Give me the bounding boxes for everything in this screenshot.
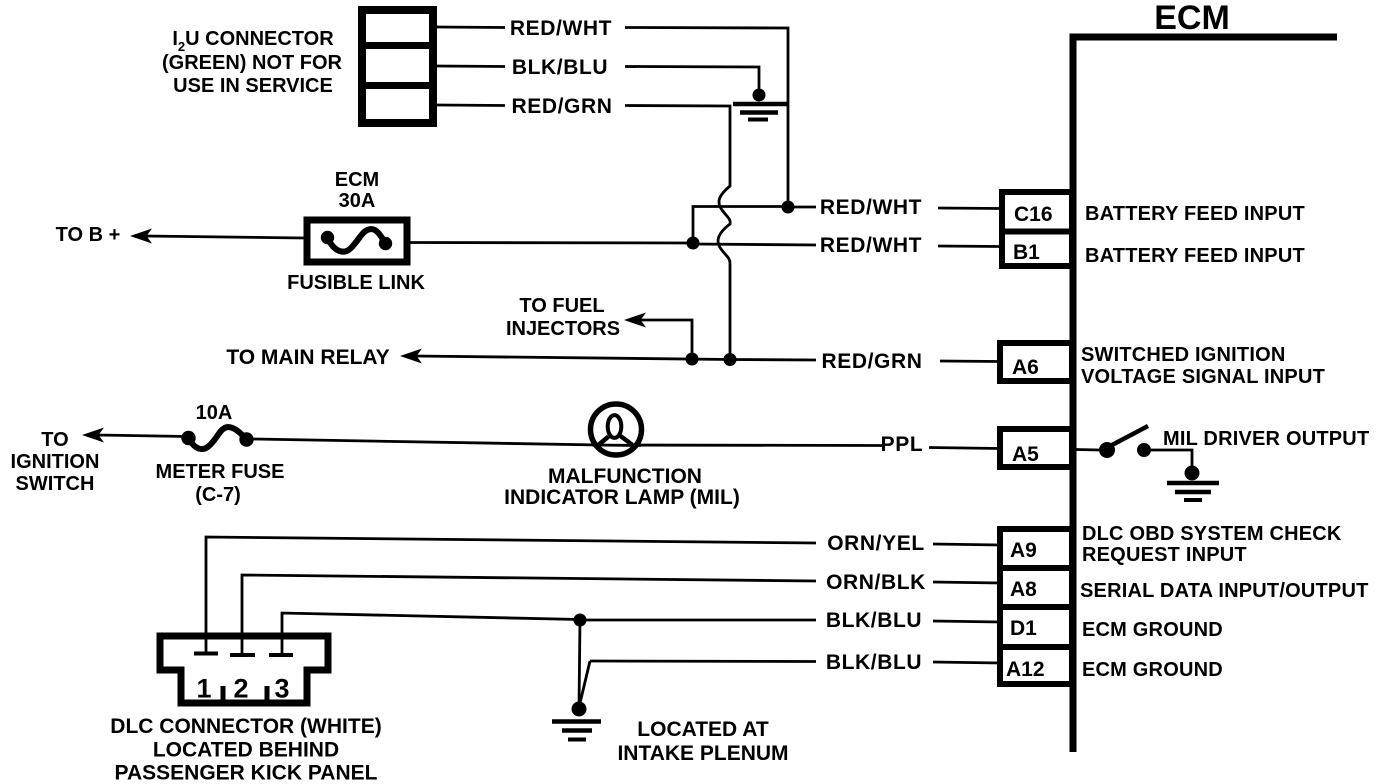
wire junction to RED/WHT label B1 row bbox=[693, 244, 816, 245]
wire ORN/YEL from DLC pin1 bbox=[206, 537, 816, 654]
svg-text:DLC OBD SYSTEM CHECK: DLC OBD SYSTEM CHECK bbox=[1082, 523, 1342, 545]
svg-text:SWITCH: SWITCH bbox=[16, 473, 95, 495]
svg-text:INJECTORS: INJECTORS bbox=[506, 318, 620, 340]
pin 3 bar DLC bbox=[269, 653, 293, 657]
wire RED/GRN from I2U pin3 bbox=[437, 104, 505, 107]
svg-text:3: 3 bbox=[274, 674, 289, 704]
wire RED/WHT to vertical drop bbox=[625, 28, 788, 204]
pin box A5 bbox=[1000, 429, 1072, 467]
wire RED/WHT from I2U pin1 bbox=[437, 26, 505, 29]
wire BLK/BLU from I2U pin2 bbox=[437, 65, 505, 68]
svg-text:DLC CONNECTOR (WHITE): DLC CONNECTOR (WHITE) bbox=[110, 715, 381, 738]
svg-text:TO FUEL: TO FUEL bbox=[519, 295, 604, 317]
arrow to fuel injectors bbox=[624, 313, 646, 328]
wire ignition to meter fuse bbox=[97, 435, 188, 437]
wire BLK/BLU into D1 bbox=[933, 621, 1000, 622]
wire A5 to switch bbox=[1076, 448, 1099, 451]
svg-text:ORN/YEL: ORN/YEL bbox=[827, 532, 925, 555]
node dot BLK/BLU ground junction bbox=[753, 89, 766, 102]
label DLC connector note bbox=[110, 715, 381, 784]
ground G2 intake plenum bbox=[552, 722, 601, 740]
node dot main relay junction bbox=[686, 353, 699, 366]
svg-text:BLK/BLU: BLK/BLU bbox=[826, 651, 922, 674]
wire PPL into A5 bbox=[929, 448, 1000, 449]
svg-text:D1: D1 bbox=[1010, 617, 1037, 640]
svg-text:METER FUSE: METER FUSE bbox=[156, 461, 285, 483]
pin box A9+A8+D1+A12 bbox=[997, 529, 1072, 684]
wire BLK/BLU A12 row from ground slant bbox=[590, 660, 816, 663]
node dot RED/GRN junction bbox=[724, 353, 737, 366]
fuse F2 meter fuse element bbox=[181, 427, 253, 449]
svg-text:B1: B1 bbox=[1013, 241, 1040, 264]
svg-text:SERIAL DATA INPUT/OUTPUT: SERIAL DATA INPUT/OUTPUT bbox=[1080, 580, 1369, 602]
svg-text:IGNITION: IGNITION bbox=[11, 451, 100, 473]
svg-text:LOCATED BEHIND: LOCATED BEHIND bbox=[153, 739, 339, 762]
wire main relay row bbox=[415, 356, 730, 360]
wire ORN/BLK into A8 bbox=[933, 582, 1000, 583]
connector J1 I2U 3-cell box bbox=[360, 10, 435, 123]
lamp MIL symbol bbox=[591, 404, 642, 455]
svg-text:RED/WHT: RED/WHT bbox=[510, 17, 612, 40]
svg-text:ECM: ECM bbox=[335, 169, 379, 191]
svg-text:VOLTAGE SIGNAL INPUT: VOLTAGE SIGNAL INPUT bbox=[1081, 366, 1325, 388]
ECM boundary line bbox=[1073, 37, 1337, 752]
wire RED/WHT into C16 bbox=[938, 207, 1000, 210]
wire fusible link to junction bbox=[410, 241, 693, 244]
svg-text:INTAKE PLENUM: INTAKE PLENUM bbox=[617, 742, 788, 765]
svg-text:A12: A12 bbox=[1006, 658, 1045, 681]
svg-text:10A: 10A bbox=[196, 402, 233, 424]
svg-text:30A: 30A bbox=[339, 190, 376, 212]
svg-text:FUSIBLE LINK: FUSIBLE LINK bbox=[287, 272, 425, 294]
arrow to ignition switch bbox=[82, 428, 104, 443]
label I2U connector note bbox=[162, 28, 343, 97]
svg-text:ORN/BLK: ORN/BLK bbox=[826, 571, 926, 594]
connector DLC notch 1 bbox=[221, 686, 226, 703]
wire BLK/BLU into A12 bbox=[933, 662, 1000, 663]
svg-text:REQUEST INPUT: REQUEST INPUT bbox=[1082, 544, 1247, 566]
pin box A6 bbox=[1000, 343, 1072, 381]
svg-text:SWITCHED IGNITION: SWITCHED IGNITION bbox=[1081, 344, 1286, 366]
wire ORN/YEL into A9 bbox=[933, 544, 1000, 545]
connector DLC outline bbox=[160, 636, 328, 703]
svg-text:A9: A9 bbox=[1010, 539, 1037, 562]
svg-text:LOCATED AT: LOCATED AT bbox=[637, 718, 769, 741]
node dot BLK/BLU ground junction D1 row bbox=[574, 614, 587, 627]
fusible link F1 element bbox=[321, 229, 392, 252]
svg-text:INDICATOR LAMP (MIL): INDICATOR LAMP (MIL) bbox=[504, 486, 740, 509]
svg-text:ECM: ECM bbox=[1154, 0, 1230, 37]
switch SW1 blade bbox=[1112, 426, 1148, 445]
svg-text:BATTERY FEED INPUT: BATTERY FEED INPUT bbox=[1085, 245, 1305, 267]
wire ORN/BLK from DLC pin2 bbox=[242, 575, 816, 655]
svg-text:RED/WHT: RED/WHT bbox=[820, 196, 922, 219]
svg-text:BLK/BLU: BLK/BLU bbox=[826, 609, 922, 632]
svg-text:RED/GRN: RED/GRN bbox=[821, 350, 922, 373]
node dot MIL ground bbox=[1185, 466, 1200, 481]
node dot switch throw bbox=[1137, 443, 1151, 457]
svg-text:(C-7): (C-7) bbox=[195, 484, 241, 506]
wire switch to ground bbox=[1151, 450, 1192, 470]
svg-text:TO MAIN RELAY: TO MAIN RELAY bbox=[226, 346, 389, 369]
wire RED/GRN into A6 bbox=[940, 360, 1000, 363]
arrow to main relay bbox=[400, 349, 422, 364]
wire ground slant from A12 row bbox=[580, 661, 590, 703]
svg-text:USE IN SERVICE: USE IN SERVICE bbox=[173, 75, 333, 97]
svg-text:RED/WHT: RED/WHT bbox=[820, 234, 922, 257]
svg-text:C16: C16 bbox=[1014, 203, 1053, 226]
svg-text:MALFUNCTION: MALFUNCTION bbox=[548, 465, 702, 488]
wire BLK/BLU to label D1 row bbox=[580, 619, 816, 622]
wire TO B+ to fusible link bbox=[145, 236, 304, 238]
svg-text:A6: A6 bbox=[1012, 356, 1039, 379]
svg-text:2: 2 bbox=[233, 674, 248, 704]
pin 2 bar DLC bbox=[230, 653, 255, 657]
svg-text:MIL DRIVER OUTPUT: MIL DRIVER OUTPUT bbox=[1163, 428, 1369, 450]
svg-text:(GREEN) NOT FOR: (GREEN) NOT FOR bbox=[162, 52, 343, 74]
pin 1 bar DLC bbox=[194, 652, 218, 656]
svg-text:RED/GRN: RED/GRN bbox=[511, 95, 612, 118]
ground G3 MIL driver bbox=[1167, 483, 1219, 500]
node dot ground intake plenum bbox=[572, 702, 587, 717]
wire fuel injector branch bbox=[640, 320, 692, 355]
ground G1 near I2U bbox=[733, 104, 788, 120]
wire RED/GRN to label A6 row bbox=[730, 358, 816, 361]
wire meter fuse to MIL and PPL label bbox=[252, 439, 883, 446]
wire junction up and right to RED/WHT row bbox=[693, 207, 788, 244]
svg-text:TO: TO bbox=[41, 429, 68, 451]
svg-text:BLK/BLU: BLK/BLU bbox=[512, 56, 608, 79]
svg-text:A8: A8 bbox=[1010, 578, 1037, 601]
wire BLK/BLU to ground drop bbox=[625, 67, 759, 93]
svg-text:PASSENGER KICK PANEL: PASSENGER KICK PANEL bbox=[115, 762, 378, 784]
arrow to B+ bbox=[130, 229, 152, 244]
svg-text:ECM GROUND: ECM GROUND bbox=[1082, 619, 1223, 641]
pin box C16+B1 bbox=[999, 192, 1072, 266]
wire RED/WHT into B1 bbox=[938, 245, 1000, 248]
wire to RED/WHT label C16 row bbox=[788, 206, 816, 209]
node dot junction B1 feed bbox=[687, 237, 700, 250]
svg-text:A5: A5 bbox=[1012, 443, 1039, 466]
wire RED/GRN to vertical drop with crossover squiggle bbox=[625, 106, 730, 355]
wire BLK/BLU from DLC pin3 bbox=[282, 613, 580, 655]
svg-text:PPL: PPL bbox=[881, 433, 924, 456]
svg-text:BATTERY FEED INPUT: BATTERY FEED INPUT bbox=[1085, 203, 1305, 225]
wire ground drop from D1 row bbox=[579, 620, 580, 706]
svg-text:TO B +: TO B + bbox=[56, 224, 121, 246]
node dot junction C16 feed bbox=[782, 201, 795, 214]
svg-text:ECM GROUND: ECM GROUND bbox=[1082, 659, 1223, 681]
connector DLC notch 2 bbox=[265, 686, 270, 703]
fusible link F1 box bbox=[307, 220, 407, 262]
node dot switch pole bbox=[1099, 442, 1115, 458]
svg-text:1: 1 bbox=[196, 674, 211, 704]
